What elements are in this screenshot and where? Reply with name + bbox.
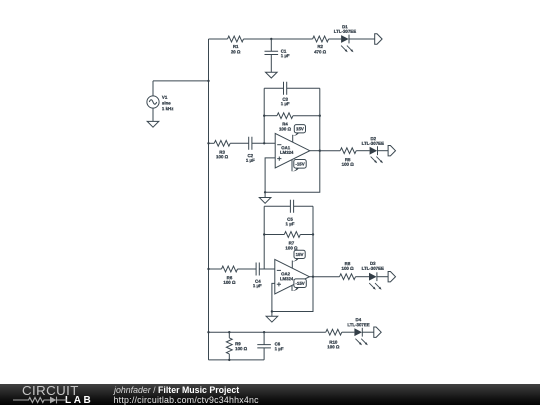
resistor R5: [340, 148, 356, 154]
wire: C3 to feedback right rail: [287, 87, 320, 89]
capacitor C1: [265, 51, 279, 54]
junction: OA1 output node: [319, 150, 321, 152]
resistor R9: [226, 338, 232, 354]
output port flag top row: [375, 34, 382, 44]
svg-text:100 Ω: 100 Ω: [235, 346, 248, 351]
wire: R4 row right: [293, 115, 320, 117]
wire: R9 bottom lead: [228, 354, 230, 360]
wire: D2 to output port: [378, 150, 389, 152]
svg-text:LTL-307EE: LTL-307EE: [362, 141, 384, 146]
svg-text:V1: V1: [162, 95, 168, 100]
wire: bottom return: [209, 359, 265, 361]
junction: C6 top node: [263, 331, 265, 333]
resistor R7: [284, 232, 300, 238]
wire: D4 to output port: [362, 331, 374, 333]
resistor R4: [277, 113, 293, 119]
svg-text:100 Ω: 100 Ω: [279, 127, 292, 132]
resistor R8: [340, 274, 356, 280]
wire: R5 to D2: [356, 150, 369, 152]
svg-text:sine: sine: [162, 101, 171, 106]
wire: left vertical rail: [208, 39, 210, 360]
wire: V1 bottom lead: [152, 108, 154, 121]
LED D3: [369, 273, 377, 281]
wire: OA1 output: [310, 150, 320, 152]
junction: R7 row left node: [263, 233, 265, 235]
power flag -15V stub OA2: [291, 285, 293, 291]
power flag -15V tail OA1: [292, 168, 299, 171]
wire: OA2 noninverting input: [272, 283, 275, 311]
voltage source V1: [147, 96, 159, 108]
resistor R6: [222, 266, 238, 272]
wire: output node to R5: [320, 150, 340, 152]
power flag 15V box OA1: [294, 125, 305, 133]
svg-text:15V: 15V: [296, 252, 304, 257]
wire: stage1 bottom return: [265, 151, 320, 193]
wire: D3 to output port: [377, 276, 388, 278]
power flag 15V tail OA1: [293, 133, 300, 136]
capacitor C4: [256, 263, 259, 276]
output port flag stage2: [388, 272, 395, 282]
svg-text:470 Ω: 470 Ω: [314, 49, 327, 54]
svg-text:100 Ω: 100 Ω: [342, 266, 355, 271]
ground at OA2 noninverting input: [266, 316, 278, 322]
ground below V1: [147, 121, 159, 127]
junction: R9 bottom node: [228, 359, 230, 361]
capacitor C6: [257, 345, 271, 348]
wire: R8 to D3: [356, 276, 370, 278]
LED D2 emission arrows: [371, 157, 376, 162]
svg-text:100 Ω: 100 Ω: [285, 246, 298, 251]
wire: ground stem stage2: [271, 312, 273, 317]
svg-text:100 Ω: 100 Ω: [327, 344, 340, 349]
wire: feedback top left to C3: [264, 87, 283, 89]
junction: R3 tap on rail: [207, 142, 209, 144]
capacitor C1 lead: [270, 39, 272, 51]
wire: R6 to C4: [238, 268, 257, 270]
capacitor C6 top lead: [263, 332, 265, 344]
op-amp OA2 minus sign: [277, 269, 281, 271]
svg-text:100 Ω: 100 Ω: [223, 280, 236, 285]
wire: feedback left rail stage2: [263, 206, 265, 269]
wire: feedback top left to C5: [264, 205, 290, 207]
junction: bottom row tap on rail: [207, 331, 209, 333]
output port flag stage1: [388, 146, 395, 156]
capacitor C3: [284, 82, 287, 95]
op-amp OA1: [275, 133, 310, 168]
wire: stage2 bottom return: [272, 277, 313, 312]
wire: feedback right rail stage2: [312, 206, 314, 276]
svg-text:1 µF: 1 µF: [281, 101, 290, 106]
resistor R1: [228, 36, 244, 42]
wire: R9 top lead: [228, 332, 230, 338]
resistor R3: [214, 140, 230, 146]
svg-text:100 Ω: 100 Ω: [342, 162, 355, 167]
power flag -15V box OA1: [294, 160, 306, 169]
svg-text:1 µF: 1 µF: [253, 283, 262, 288]
op-amp OA1 plus sign: [277, 157, 281, 161]
svg-text:LTL-307EE: LTL-307EE: [347, 322, 369, 327]
junction: R7 row right node: [312, 233, 314, 235]
junction: R4 row right node: [319, 115, 321, 117]
wire: output node to R8: [313, 276, 340, 278]
wire: V1 top lead: [152, 81, 154, 96]
power flag -15V tail OA2: [292, 288, 299, 291]
power flag -15V box OA2: [294, 279, 306, 288]
wire: C5 to feedback right rail: [294, 205, 313, 207]
power flag 15V tail OA2: [292, 259, 299, 262]
svg-text:LM324: LM324: [280, 276, 294, 281]
svg-text:-15V: -15V: [295, 162, 304, 167]
junction: R6 tap on rail: [207, 268, 209, 270]
wire: top row from rail corner to R1: [209, 38, 228, 40]
wire: R1 to R2 through node: [244, 38, 313, 40]
svg-text:1 µF: 1 µF: [286, 221, 295, 226]
wire: R10 to D4: [342, 331, 355, 333]
ground below C1: [266, 72, 278, 78]
wire: R7 row right: [300, 234, 313, 236]
resistor R2: [313, 36, 329, 42]
junction: V1 tap on rail: [207, 80, 209, 82]
LED D1 emission arrows: [341, 46, 346, 51]
junction: node A inverting input: [263, 142, 265, 144]
wire: R2 to D1: [329, 38, 342, 40]
wire: R7 row left: [264, 234, 284, 236]
wire: OA1 noninverting input: [265, 158, 275, 192]
svg-text:1 µF: 1 µF: [246, 158, 255, 163]
wire: feedback right rail stage1: [319, 88, 321, 150]
svg-text:-15V: -15V: [295, 281, 304, 286]
ground at OA1 noninverting input: [259, 198, 271, 204]
power flag 15V stub OA2: [291, 261, 293, 268]
wire: ground stem stage1: [264, 192, 266, 197]
wire: D1 to output port: [349, 38, 375, 40]
svg-text:LTL-307EE: LTL-307EE: [362, 266, 384, 271]
wire: C1 to ground: [270, 55, 272, 73]
svg-text:1 µF: 1 µF: [275, 346, 284, 351]
svg-text:100 Ω: 100 Ω: [216, 154, 229, 159]
junction: ground node stage1: [264, 191, 266, 193]
LED D2: [370, 147, 378, 155]
wire: R4 row left: [264, 115, 277, 117]
LED D3 emission arrows: [369, 283, 374, 288]
capacitor C6 bottom lead: [263, 348, 265, 360]
junction: OA2 output node: [312, 276, 314, 278]
op-amp OA2 plus sign: [277, 282, 281, 286]
svg-text:20 Ω: 20 Ω: [231, 49, 241, 54]
svg-text:1 µF: 1 µF: [281, 53, 290, 58]
wire: R3 to C2: [230, 142, 249, 144]
wire: feedback left rail stage1: [263, 88, 265, 143]
svg-text:1 kHz: 1 kHz: [162, 106, 174, 111]
wire: C4 to OA2 inverting input: [259, 268, 275, 270]
svg-text:LM324: LM324: [280, 150, 294, 155]
svg-text:R2: R2: [317, 44, 323, 49]
junction: R4 row left node: [263, 115, 265, 117]
wire: OA2 output: [309, 276, 313, 278]
junction: R9 top node: [228, 331, 230, 333]
LED D4 emission arrows: [355, 339, 360, 344]
svg-text:LTL-307EE: LTL-307EE: [334, 29, 356, 34]
output port flag bottom row: [374, 327, 381, 337]
op-amp OA2: [275, 259, 310, 294]
LED D4: [354, 328, 362, 336]
capacitor C5: [290, 200, 293, 213]
wire: V1 tap from rail: [153, 80, 209, 82]
op-amp OA1 minus sign: [277, 144, 281, 146]
junction: node at C1 tap: [270, 38, 272, 40]
svg-text:R1: R1: [233, 44, 239, 49]
power flag 15V box OA2: [294, 250, 305, 258]
capacitor C2: [249, 137, 252, 150]
wire: C2 to OA1 inverting input: [252, 142, 275, 144]
svg-text:15V: 15V: [296, 126, 304, 131]
wire: rail to R3: [209, 142, 215, 144]
power flag -15V stub OA1: [291, 160, 293, 172]
wire: bottom row from rail to R10: [209, 331, 326, 333]
resistor R10: [326, 329, 342, 335]
LED D1: [341, 35, 349, 43]
junction: ground node stage2: [271, 310, 273, 312]
wire: rail to R6: [209, 268, 222, 270]
power flag 15V stub OA1: [292, 135, 294, 142]
